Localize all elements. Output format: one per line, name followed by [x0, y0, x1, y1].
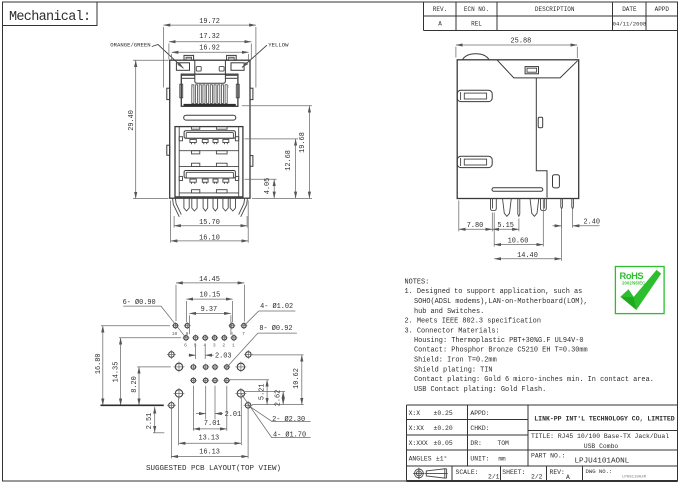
dim 2.62 [245, 391, 285, 393]
side view latch lower [457, 156, 492, 167]
svg-text:X:XX: X:XX [409, 425, 425, 432]
svg-text:1: 1 [232, 343, 235, 349]
RJ45 side latch left [180, 84, 183, 98]
svg-text:19.68: 19.68 [299, 132, 307, 153]
svg-text:Contact: Phosphor Bronze C5210: Contact: Phosphor Bronze C5210 EH T=0.30… [414, 347, 588, 355]
svg-text:14.35: 14.35 [113, 362, 121, 383]
USB mid divider2 [179, 165, 239, 167]
USB port2 contacts [190, 179, 229, 184]
YELLOW leader [242, 45, 267, 67]
RoHS checkmark [620, 270, 661, 310]
pcb baseline [101, 404, 164, 406]
ORANGE/GREEN leader [152, 45, 184, 69]
svg-text:10.62: 10.62 [293, 368, 301, 389]
svg-text:±1°: ±1° [436, 454, 448, 462]
svg-text:PART NO.:: PART NO.: [531, 452, 566, 459]
svg-text:REV.: REV. [433, 6, 447, 13]
side view oval bar [492, 188, 543, 192]
svg-text:12.68: 12.68 [285, 150, 293, 171]
svg-text:LPJU4101AONL: LPJU4101AONL [575, 457, 630, 465]
RJ45 contact pins [192, 85, 227, 104]
svg-text:USB Combo: USB Combo [584, 443, 619, 450]
svg-text:17.32: 17.32 [199, 33, 220, 41]
projection symbol [413, 468, 448, 479]
svg-text:DATE: DATE [622, 6, 637, 13]
USB port2 side notches [179, 176, 182, 180]
svg-text:16.92: 16.92 [199, 45, 220, 53]
svg-text:16.13: 16.13 [199, 449, 220, 457]
pcb row1 holes [172, 322, 179, 329]
front angled leg right [239, 198, 248, 217]
svg-text:Mechanical:: Mechanical: [9, 10, 90, 25]
pcb usb holes [190, 364, 197, 371]
body side tab right lower [250, 156, 253, 167]
svg-text:2.51: 2.51 [146, 413, 154, 430]
dim 5.21 [229, 379, 269, 381]
RJ45 side latch right [236, 84, 239, 98]
side view lower-right hole [553, 175, 560, 188]
svg-text:8.20: 8.20 [131, 376, 139, 393]
dim 2.03 [195, 344, 197, 360]
front angled leg left [173, 198, 182, 217]
svg-text:hub and Switches.: hub and Switches. [414, 308, 484, 316]
dim 14.35 [119, 337, 181, 339]
dim 12.68 [245, 138, 299, 140]
dim 16.80 [101, 325, 170, 327]
pcb large holes [174, 362, 185, 373]
svg-text:REV:: REV: [550, 469, 565, 476]
USB port1 contacts [190, 139, 229, 144]
RJ45 cavity bottom bar [184, 104, 236, 106]
NOTES text block [405, 278, 654, 394]
svg-text:2. Meets IEEE 802.3 specificat: 2. Meets IEEE 802.3 specification [405, 318, 541, 326]
svg-text:CHKD:: CHKD: [470, 425, 489, 432]
side view top wing arc [462, 54, 489, 60]
svg-text:LINK-PP INT'L TECHNOLOGY CO, L: LINK-PP INT'L TECHNOLOGY CO, LIMITED [534, 415, 675, 422]
svg-text:2.03: 2.03 [215, 353, 232, 361]
svg-text:±0.05: ±0.05 [434, 440, 453, 447]
svg-text:SOHO(ADSL modems),LAN-on-Mothe: SOHO(ADSL modems),LAN-on-Motherboard(LOM… [414, 298, 588, 306]
RJ45 latch block [195, 60, 226, 83]
svg-text:ECN NO.: ECN NO. [464, 6, 489, 13]
svg-text:3. Connector Materials:: 3. Connector Materials: [405, 327, 500, 335]
svg-text:SHEET:: SHEET: [502, 469, 525, 476]
svg-text:10.15: 10.15 [200, 292, 221, 300]
svg-text:A: A [566, 474, 570, 481]
USB port2 tongue [184, 171, 235, 179]
side view mid shield hole [538, 117, 543, 127]
RoHS checkmark shade [620, 297, 636, 310]
svg-text:±0.25: ±0.25 [434, 410, 453, 417]
front view body outline [170, 60, 250, 198]
svg-text:2002/95/EC: 2002/95/EC [622, 280, 645, 285]
svg-text:USB Contact plating: Gold Flas: USB Contact plating: Gold Flash. [414, 386, 546, 394]
svg-text:29.40: 29.40 [128, 110, 136, 131]
USB top edge tabs [192, 127, 200, 130]
svg-text:7: 7 [242, 331, 245, 337]
svg-text:APPD: APPD [655, 6, 670, 13]
svg-text:LP08110A2R: LP08110A2R [622, 476, 647, 480]
side view latch upper [457, 90, 492, 101]
RoHS logo box [615, 267, 664, 314]
Mechanical title box [3, 2, 98, 26]
svg-text:Shield: Iron T=0.2mm: Shield: Iron T=0.2mm [414, 357, 497, 365]
svg-text:13.13: 13.13 [198, 435, 219, 443]
dim 10.62 [252, 354, 303, 356]
svg-text:1: 1 [227, 86, 230, 90]
svg-text:DESCRIPTION: DESCRIPTION [535, 6, 575, 13]
svg-text:±0.20: ±0.20 [434, 425, 453, 432]
svg-text:25.88: 25.88 [511, 37, 532, 45]
front view top mounting tabs [184, 55, 194, 60]
side view top shield hole [525, 67, 538, 74]
svg-text:X:XXX: X:XXX [409, 440, 428, 447]
USB bottom inner line [179, 192, 239, 194]
svg-text:TOM: TOM [497, 440, 509, 447]
svg-text:2- Ø2.30: 2- Ø2.30 [272, 415, 305, 424]
svg-text:2: 2 [222, 343, 225, 349]
svg-text:SUGGESTED PCB LAYOUT(TOP VIEW): SUGGESTED PCB LAYOUT(TOP VIEW) [146, 465, 281, 473]
dim 19.68 [242, 105, 312, 107]
revision table [423, 2, 677, 31]
svg-text:2.62: 2.62 [275, 390, 283, 407]
svg-text:4- Ø1.02: 4- Ø1.02 [260, 302, 293, 311]
side view body outline [457, 60, 579, 199]
pcb row2 holes [183, 334, 190, 341]
svg-text:4- Ø1.70: 4- Ø1.70 [273, 431, 306, 440]
front bottom shield legs [184, 198, 236, 211]
dim 4.05 [245, 178, 277, 180]
svg-text:Housing: Thermoplastic PBT+30%: Housing: Thermoplastic PBT+30%G.F UL94V-… [414, 337, 584, 345]
pcb corner holes [167, 350, 176, 359]
USB block inner walls [178, 127, 180, 197]
dim 8.20 [137, 366, 171, 368]
right LED window [231, 63, 244, 71]
svg-text:3: 3 [213, 343, 216, 349]
RJ45 cavity outer frame [181, 74, 238, 106]
svg-text:A: A [438, 21, 442, 28]
body side tab left upper [167, 88, 170, 99]
svg-text:APPD:: APPD: [470, 410, 489, 417]
svg-text:8- Ø0.92: 8- Ø0.92 [259, 324, 292, 333]
USB block outer frame [175, 127, 243, 197]
svg-text:UNIT:: UNIT: [470, 455, 489, 462]
svg-text:YELLOW: YELLOW [268, 41, 289, 48]
dim 2.51 [154, 407, 156, 433]
USB mid divider1 [179, 150, 239, 152]
svg-text:16.80: 16.80 [95, 353, 103, 374]
svg-text:2/2: 2/2 [531, 474, 543, 481]
svg-text:X:X: X:X [409, 410, 421, 417]
svg-text:ORANGE/GREEN: ORANGE/GREEN [110, 41, 150, 48]
USB port1 tongue [184, 131, 235, 139]
svg-text:6- Ø0.90: 6- Ø0.90 [123, 298, 156, 307]
svg-text:TITLE: RJ45 10/100 Base-TX Jac: TITLE: RJ45 10/100 Base-TX Jack/Dual [531, 433, 669, 440]
dim 29.40 [133, 59, 169, 61]
side view top chamfer trapezoid [497, 60, 578, 78]
side view legs [491, 199, 574, 217]
svg-text:4: 4 [203, 343, 206, 349]
svg-text:04/11/2008: 04/11/2008 [613, 21, 647, 28]
svg-text:4.05: 4.05 [264, 178, 272, 195]
svg-text:9.37: 9.37 [201, 306, 218, 314]
svg-text:10: 10 [172, 331, 178, 337]
svg-text:mm: mm [498, 455, 506, 462]
USB port1 side notches [179, 137, 182, 141]
body side tab left lower [167, 145, 170, 155]
svg-text:19.72: 19.72 [199, 18, 220, 26]
svg-text:Shield plating: TIN: Shield plating: TIN [414, 366, 493, 374]
title block grid [406, 405, 677, 481]
svg-text:Contact plating: Gold 6 micro-: Contact plating: Gold 6 micro-inches min… [414, 376, 654, 384]
RJ45 latch shoulders [182, 74, 195, 76]
svg-text:DR:: DR: [470, 440, 482, 447]
svg-text:5: 5 [194, 343, 197, 349]
svg-text:6: 6 [184, 343, 187, 349]
svg-text:1. Designed to support applica: 1. Designed to support application, such… [405, 288, 583, 296]
side view housing rear edge [536, 78, 547, 198]
svg-text:REL: REL [471, 21, 482, 28]
oval vent slot [184, 115, 236, 120]
svg-text:NOTES:: NOTES: [405, 278, 430, 286]
svg-text:DWG NO.:: DWG NO.: [586, 468, 613, 475]
svg-text:SCALE:: SCALE: [456, 469, 479, 476]
svg-text:2/1: 2/1 [488, 474, 500, 481]
svg-text:ANGLES: ANGLES [409, 455, 432, 462]
dim 2.01 [205, 386, 207, 420]
body side tab right upper [250, 88, 253, 99]
svg-text:7.01: 7.01 [204, 420, 221, 428]
left LED window [176, 63, 189, 71]
